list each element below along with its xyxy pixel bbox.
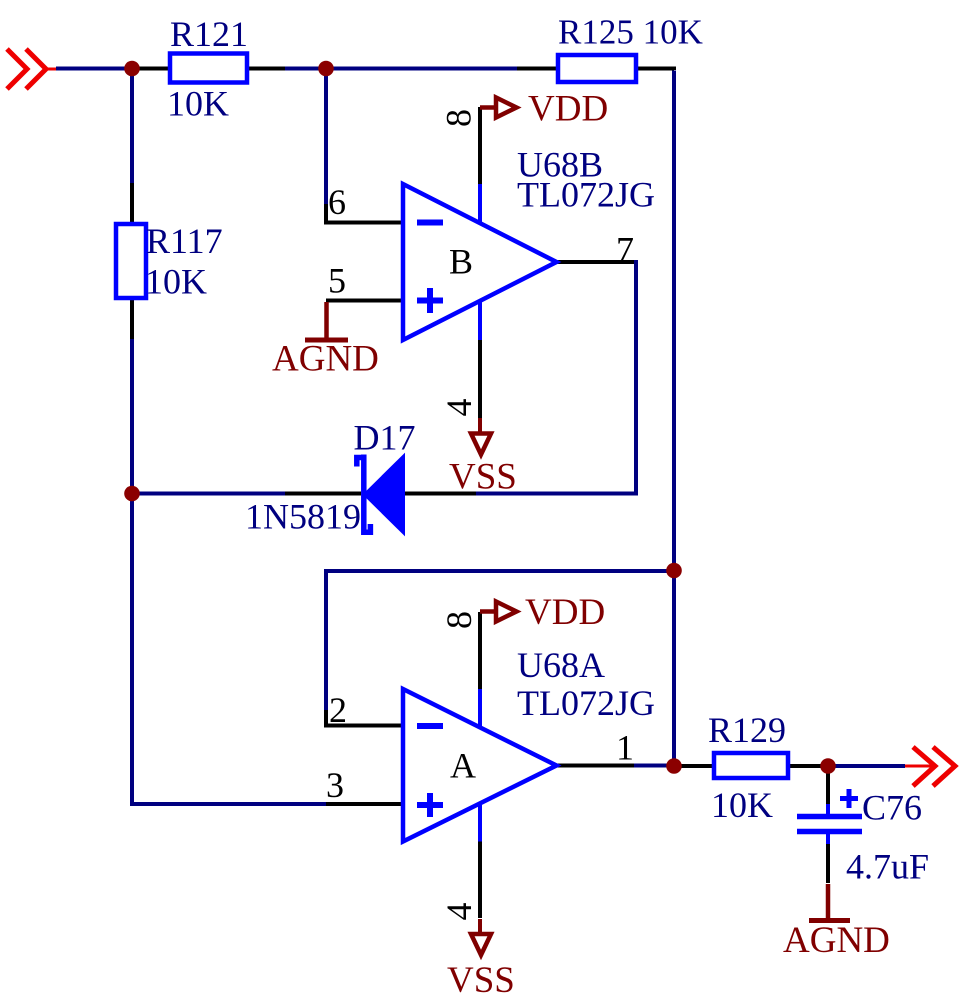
wire left rail to diode node: [130, 339, 134, 494]
svg-text:R121: R121: [170, 14, 248, 54]
wire pin 3 stub: [326, 802, 403, 806]
op-amp U68A minus mark: [417, 723, 443, 729]
svg-text:AGND: AGND: [783, 920, 890, 961]
wire R117 top pin stub: [130, 183, 134, 222]
power VSS B: [471, 418, 491, 455]
wire rail to R129 stub: [674, 764, 712, 768]
wire R129 right stub: [790, 764, 828, 768]
wire diode node to left rail: [132, 492, 285, 496]
wire node B down to pin 6: [324, 69, 328, 205]
svg-text:8: 8: [439, 109, 479, 127]
svg-text:1N5819: 1N5819: [245, 497, 361, 537]
wire output node to port: [828, 764, 905, 768]
power VDD B: [480, 98, 517, 118]
wire op-amp A output pin 1: [557, 764, 634, 768]
wire R125 right pin stub: [638, 69, 674, 71]
wire left rail to pin3 row: [132, 494, 326, 804]
port P_IN input chevron: [7, 49, 56, 89]
node pin1 junction: [666, 758, 682, 774]
svg-text:2: 2: [329, 690, 347, 730]
svg-text:VSS: VSS: [449, 457, 517, 498]
resistor R117: [116, 224, 146, 298]
svg-text:10K: 10K: [167, 84, 229, 124]
svg-text:R125 10K: R125 10K: [558, 13, 703, 52]
svg-text:B: B: [449, 242, 473, 282]
svg-text:8: 8: [439, 611, 479, 629]
capacitor C76 plus mark: [840, 789, 858, 808]
svg-text:VDD: VDD: [525, 592, 605, 633]
wire op-amp B output pin 7: [557, 260, 634, 264]
svg-text:4: 4: [439, 903, 479, 921]
op-amp U68B triangle: [403, 184, 557, 340]
node diode-left junction: [124, 486, 140, 502]
wire pin 2 stub: [326, 710, 403, 726]
svg-text:TL072JG: TL072JG: [517, 683, 655, 723]
wire diode right pin stub: [404, 492, 476, 496]
wire input to node A: [56, 67, 132, 71]
svg-text:4: 4: [439, 399, 479, 417]
wire node A to R121 (pin stub): [130, 67, 168, 71]
port P_OUT output chevron: [905, 747, 955, 786]
wire node A down rail: [130, 69, 134, 184]
svg-text:10K: 10K: [711, 785, 773, 825]
svg-text:VDD: VDD: [528, 89, 608, 130]
node B junction: [318, 61, 334, 77]
op-amp U68B pin 4 power stub: [478, 301, 482, 340]
svg-text:3: 3: [326, 765, 344, 805]
wire pin 4 A: [478, 842, 482, 919]
wire pin 7 down to diode row: [476, 262, 636, 494]
op-amp U68B pin 8 power stub: [478, 184, 482, 223]
resistor R125: [558, 55, 636, 82]
node A junction: [124, 61, 140, 77]
svg-text:A: A: [450, 746, 476, 786]
diode D17 cathode bar: [357, 455, 371, 536]
svg-text:1: 1: [616, 728, 634, 768]
svg-text:AGND: AGND: [272, 339, 379, 380]
op-amp U68A pin 4 power stub: [478, 805, 482, 842]
wire right rail down: [672, 71, 676, 767]
diode D17 triangle: [364, 455, 404, 534]
power VDD A: [480, 602, 517, 622]
svg-text:10K: 10K: [145, 262, 207, 302]
svg-text:6: 6: [328, 182, 346, 222]
node feedback junction: [666, 563, 682, 579]
wire pin 8 B: [478, 107, 482, 184]
node output junction: [820, 758, 836, 774]
svg-text:VSS: VSS: [447, 960, 515, 998]
power AGND at C76: [809, 884, 850, 921]
wire pin 6 stub: [326, 204, 403, 223]
svg-text:D17: D17: [354, 418, 416, 458]
svg-text:TL072JG: TL072JG: [517, 175, 655, 215]
wire feedback A row: [326, 571, 674, 710]
resistor R121: [170, 54, 247, 83]
svg-text:R117: R117: [146, 221, 223, 261]
power AGND at pin 5: [305, 302, 348, 340]
svg-text:7: 7: [616, 230, 634, 270]
wire pin 4 B: [478, 340, 482, 418]
op-amp U68A pin 8 power stub: [478, 689, 482, 726]
resistor R129: [714, 753, 788, 778]
op-amp U68B plus mark: [417, 288, 443, 313]
wire pin 8 A: [478, 612, 482, 689]
wire C76 top pin: [826, 766, 830, 805]
wire C76 bottom pin: [826, 843, 830, 883]
op-amp U68A plus mark: [417, 793, 443, 817]
capacitor C76 plates: [797, 804, 862, 844]
wire R121 to node B: [249, 67, 285, 71]
wire node B to R125: [285, 67, 517, 71]
wire R117 bottom pin stub: [130, 300, 134, 339]
svg-text:U68A: U68A: [517, 645, 605, 685]
wire diode left pin stub: [285, 492, 361, 496]
svg-text:4.7uF: 4.7uF: [846, 847, 929, 887]
op-amp U68B minus mark: [417, 220, 443, 226]
svg-text:5: 5: [328, 261, 346, 301]
svg-text:C76: C76: [862, 788, 922, 828]
wire pin 5 stub: [326, 299, 403, 303]
wire R125 left pin stub: [517, 67, 556, 71]
svg-text:R129: R129: [708, 710, 786, 750]
power VSS A: [471, 919, 491, 955]
op-amp U68A triangle: [403, 689, 557, 842]
wire pin1 to rail: [634, 764, 674, 768]
